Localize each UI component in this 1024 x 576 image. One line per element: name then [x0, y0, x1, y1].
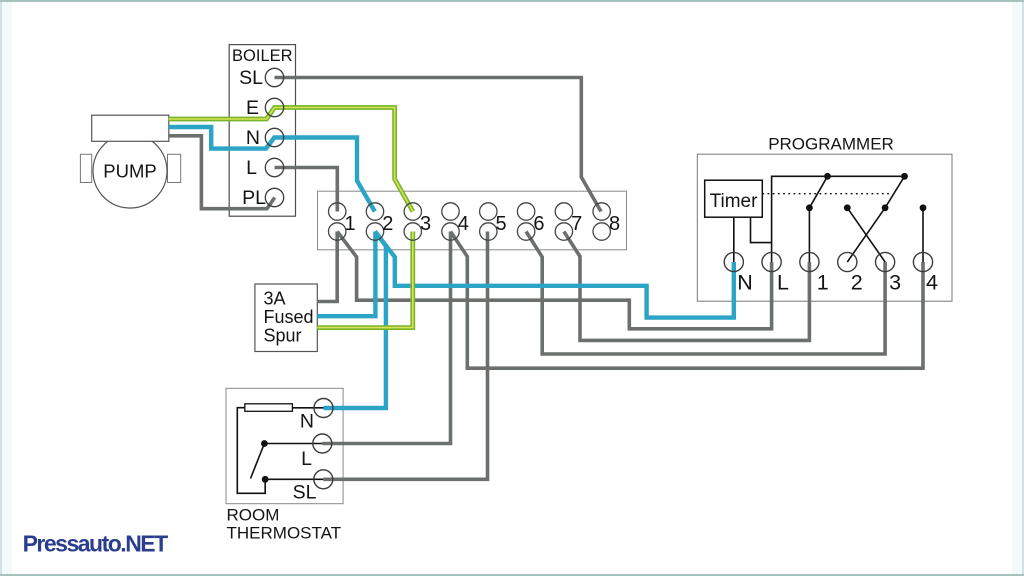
wire: terminal 2 to room stat N (cyan) [324, 232, 386, 409]
svg-text:Fused: Fused [264, 307, 314, 327]
switch arm A to contact 1 [809, 176, 827, 208]
svg-text:Spur: Spur [264, 326, 302, 346]
crossed wire: contact 3 to programmer terminal 2 (thin) [847, 208, 885, 262]
terminal 2 [366, 203, 393, 240]
svg-text:2: 2 [382, 213, 393, 235]
wire: contact 4 to programmer terminal 4 (thin) [922, 208, 924, 262]
terminal 4 [442, 203, 469, 240]
boiler terminal L [246, 157, 284, 179]
wire: stat SL contact to SL terminal (thin) [265, 478, 323, 480]
wire: terminal 7 to programmer 1 (gray) [564, 232, 810, 341]
svg-text:N: N [300, 411, 314, 433]
boiler terminal E [246, 97, 284, 119]
svg-text:4: 4 [926, 270, 938, 294]
wire: terminal 3 to fused spur earth (green/yellow) [317, 232, 413, 328]
wire: terminal 1 to programmer L (gray) [337, 232, 771, 329]
room stat terminal L [301, 434, 332, 470]
svg-text:4: 4 [458, 213, 469, 235]
wire: pump earth to boiler E to terminal 3 top (green/yellow) [169, 108, 413, 212]
wire: timer to programmer L (thin) [751, 217, 772, 242]
stat switch arm [251, 444, 265, 479]
svg-text:3A: 3A [264, 289, 286, 309]
svg-text:L: L [246, 157, 257, 179]
terminal 7 [555, 203, 582, 240]
contact dot 1 [806, 204, 813, 211]
wire: resistor to stat SL contact (thin) [237, 408, 265, 494]
terminal 5 [480, 203, 507, 240]
stat contact dot SL [262, 476, 269, 483]
terminal strip box [318, 191, 627, 250]
terminal 8 [593, 203, 620, 240]
svg-text:L: L [777, 270, 789, 294]
wire: terminal 6 to programmer 3 (gray) [526, 232, 885, 355]
svg-text:8: 8 [609, 213, 620, 235]
boiler terminal SL [239, 67, 284, 89]
stat contact dot L [261, 440, 268, 447]
pump [80, 115, 180, 208]
svg-text:Pressauto.NET: Pressauto.NET [23, 531, 169, 557]
svg-text:SL: SL [293, 482, 317, 504]
contact dot 4 [920, 204, 927, 211]
contact dot 2 [844, 204, 851, 211]
svg-text:ROOM: ROOM [227, 506, 280, 525]
boiler terminal N [246, 127, 284, 149]
svg-text:5: 5 [496, 213, 507, 235]
room stat resistor [245, 404, 293, 412]
programmer terminal N [724, 252, 753, 294]
programmer terminal 4 [913, 252, 938, 294]
crossed wire: contact 2 to programmer terminal 3 (thin) [847, 208, 885, 262]
terminal 6 [517, 203, 544, 240]
svg-text:PUMP: PUMP [103, 161, 156, 182]
room thermostat box [226, 388, 343, 542]
wire: pump to boiler PL (gray) [169, 136, 275, 209]
programmer box [697, 135, 952, 302]
terminal 3 [404, 203, 431, 240]
boiler box [229, 45, 295, 217]
contact dot 3 [882, 204, 889, 211]
svg-text:BOILER: BOILER [232, 47, 293, 65]
timer box [705, 180, 763, 217]
svg-text:PL: PL [242, 187, 266, 209]
svg-text:3: 3 [420, 213, 431, 235]
wire: terminal 2 to programmer N (cyan) [375, 232, 734, 318]
svg-text:3: 3 [889, 270, 901, 294]
programmer terminal 2 [838, 252, 863, 294]
switch arm B to contact 3 [885, 176, 904, 208]
svg-text:1: 1 [817, 270, 829, 294]
terminal 1 [329, 203, 356, 240]
svg-text:Timer: Timer [710, 191, 759, 212]
svg-text:1: 1 [344, 213, 355, 235]
wire: programmer L up to switch rail (thin) [772, 176, 905, 262]
junction dot B [901, 173, 908, 180]
wire: contact 1 to programmer terminal 1 (thin) [808, 208, 810, 262]
svg-text:N: N [737, 270, 753, 294]
programmer terminal 3 [876, 252, 902, 294]
junction dot A [824, 173, 831, 180]
svg-text:6: 6 [533, 213, 544, 235]
wire: fused spur to terminal 1 bottom (gray) [317, 232, 337, 302]
svg-text:THERMOSTAT: THERMOSTAT [227, 524, 342, 543]
wire: pump to boiler N to terminal 2 top (cyan) [169, 127, 375, 212]
wire: terminal 5 to room stat SL (gray) [323, 232, 487, 480]
fused spur box [255, 284, 317, 352]
wire: resistor to stat N (thin) [292, 407, 323, 409]
wire: terminal 4 to programmer 4 (gray) [451, 232, 924, 369]
room stat terminal SL [293, 470, 333, 504]
wire: stat L contact to L terminal (thin) [264, 443, 322, 445]
svg-text:N: N [246, 127, 260, 149]
svg-text:7: 7 [571, 213, 582, 235]
wire: boiler SL to terminal 8 (gray) [275, 78, 602, 212]
wire: timer to programmer N (thin) [733, 217, 735, 262]
wire: boiler L to terminal 1 top (gray) [275, 168, 338, 212]
svg-text:L: L [301, 448, 312, 470]
wire: terminal 4 to room stat L (gray) [322, 232, 450, 444]
programmer terminal 1 [800, 252, 829, 294]
svg-text:E: E [246, 97, 259, 119]
dotted line [762, 193, 891, 195]
wire: fused spur N to terminal 2 bottom (cyan) [317, 232, 375, 317]
svg-text:2: 2 [851, 270, 863, 294]
svg-text:SL: SL [239, 67, 263, 89]
boiler terminal PL [242, 187, 284, 209]
room stat terminal N [300, 399, 333, 433]
svg-text:PROGRAMMER: PROGRAMMER [768, 135, 894, 154]
programmer terminal L [762, 252, 789, 294]
